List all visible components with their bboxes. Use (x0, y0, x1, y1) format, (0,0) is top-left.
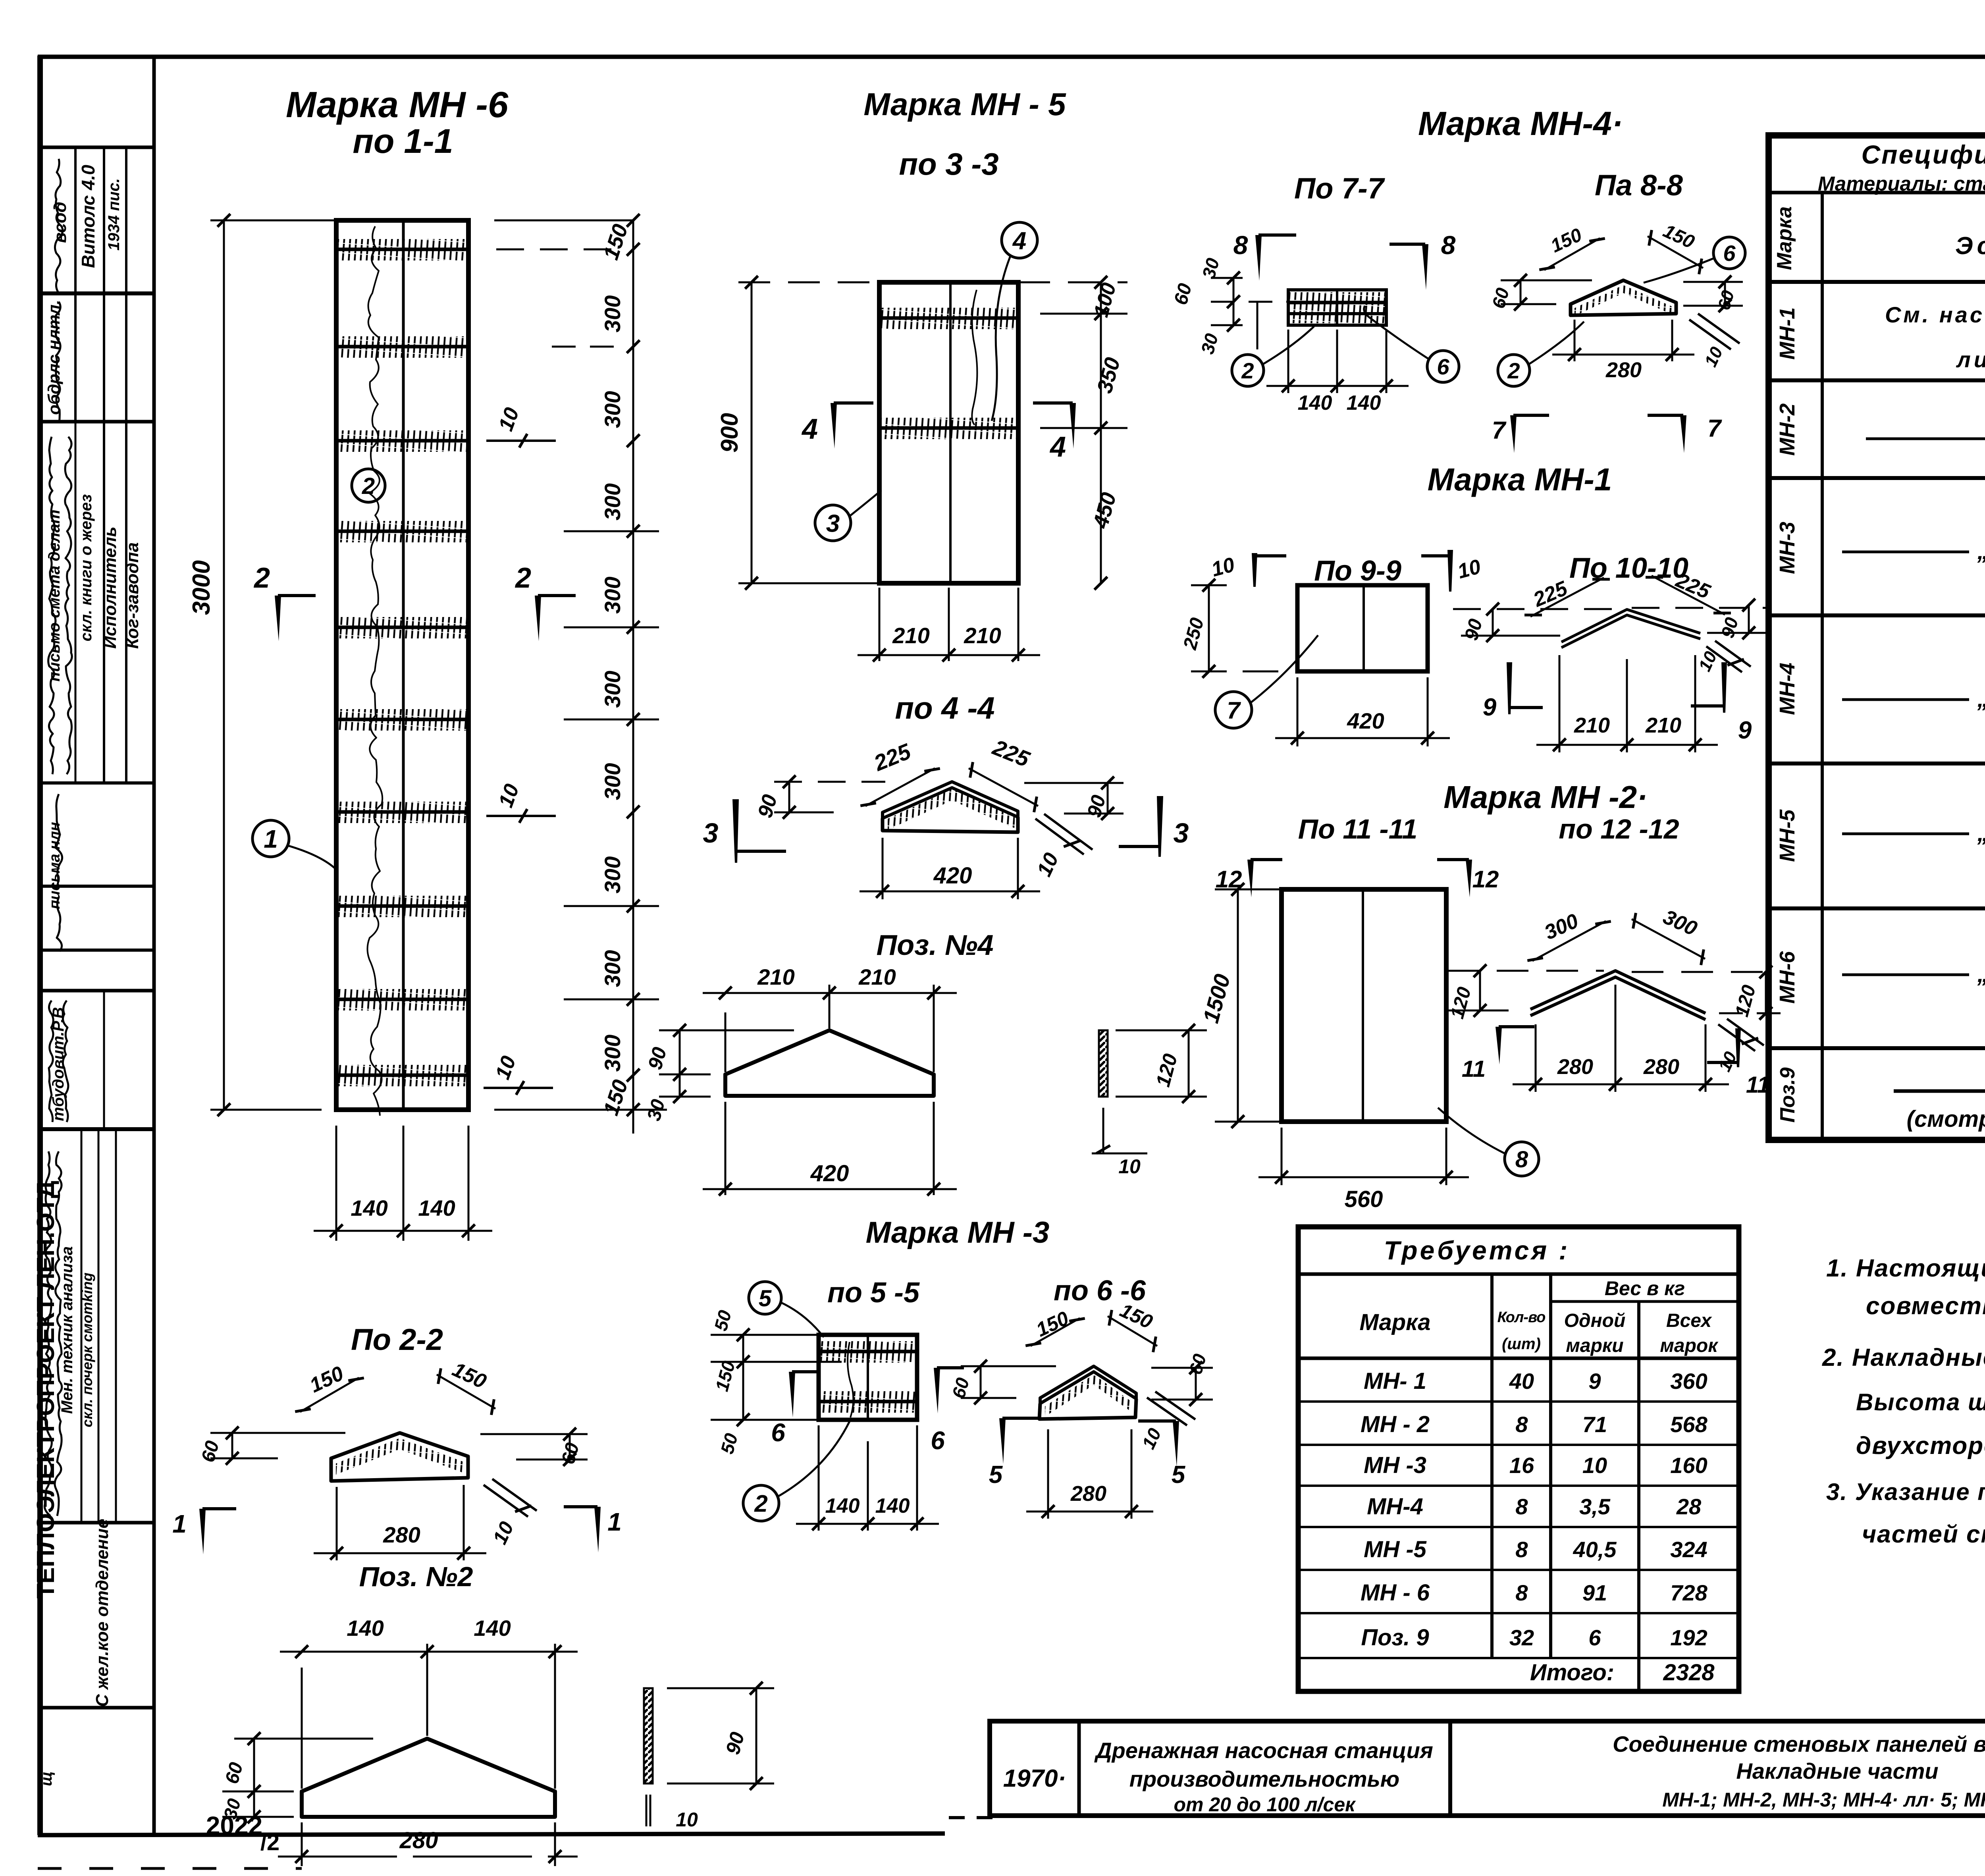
svg-text:3000: 3000 (188, 560, 215, 615)
MN-6 callout circle 2 (352, 469, 385, 502)
svg-text:1934 пис.: 1934 пис. (105, 178, 123, 251)
po 2-2 dim 150 left (300, 1378, 359, 1412)
svg-text:900: 900 (716, 413, 743, 453)
MN-6 section mark 2 left (275, 596, 281, 641)
svg-text:9: 9 (1588, 1369, 1601, 1394)
po 10-10 weld 10 (1706, 646, 1742, 672)
sheet top border (38, 55, 1985, 59)
po 11-11 callout circle 8 (1505, 1142, 1539, 1176)
po 5-5 left dims 50 150 50 (742, 1335, 744, 1420)
svg-text:160: 160 (1670, 1453, 1707, 1478)
svg-text:10: 10 (1118, 1155, 1141, 1178)
po 10-10 chevron plate (1561, 609, 1700, 642)
po 6-6 bent plate (1040, 1366, 1136, 1404)
sheet outer border left edge (37, 56, 43, 1835)
svg-text:140: 140 (347, 1616, 384, 1641)
svg-text:(шт): (шт) (1502, 1335, 1541, 1353)
svg-text:300: 300 (600, 856, 625, 893)
svg-text:6: 6 (1723, 241, 1736, 266)
po 11-11 bottom dim 560 (1281, 1128, 1283, 1185)
svg-text:32: 32 (1509, 1625, 1534, 1650)
svg-text:2: 2 (754, 1490, 767, 1517)
svg-text:300: 300 (600, 295, 625, 332)
svg-text:6: 6 (771, 1418, 785, 1447)
svg-text:Поз. 9: Поз. 9 (1361, 1625, 1429, 1650)
po 10-10 dim 225 left (1530, 578, 1604, 617)
svg-text:5: 5 (1172, 1461, 1186, 1488)
po 6-6 bottom dim 280 (1047, 1429, 1049, 1519)
po 12-12 dim 120 right (1765, 972, 1767, 1013)
svg-text:5: 5 (989, 1461, 1003, 1488)
svg-text:1: 1 (607, 1508, 622, 1536)
svg-text:6: 6 (1437, 354, 1449, 379)
svg-text:140: 140 (418, 1195, 455, 1220)
svg-text:МН - 6: МН - 6 (1361, 1580, 1430, 1606)
stamp column right edge (152, 57, 156, 1835)
po 6-6 dim 150 right (1108, 1316, 1157, 1346)
po 4-4 section mark 3 right (1157, 796, 1163, 857)
stamp column inner verticals upper (74, 147, 77, 422)
po 2-2 weld 10 (484, 1485, 528, 1517)
svg-text:МН-6: МН-6 (1775, 951, 1799, 1004)
MN-5 break wavy line (972, 290, 977, 425)
svg-text:280: 280 (1605, 358, 1642, 382)
svg-text:совместно с черт. листы: совместно с черт. листы ЛЛ 5;6 (1866, 1292, 1985, 1320)
po 6-6 section 5 left (999, 1418, 1006, 1464)
po 4-4 bottom dim 420 (882, 838, 884, 899)
svg-text:По 10-10: По 10-10 (1569, 552, 1688, 584)
MN-5 mid vertical (949, 282, 952, 583)
svg-text:По 11 -11: По 11 -11 (1298, 814, 1418, 844)
svg-text:8: 8 (1515, 1147, 1528, 1172)
po 8-8 dim 60 left (1520, 280, 1522, 304)
po 7-7 callout circle 6 (1427, 351, 1459, 382)
title block outer (990, 1721, 1985, 1816)
po 5-5 bottom dim 140 140 (818, 1425, 820, 1531)
svg-text:420: 420 (933, 863, 972, 889)
svg-text:Марка МН - 5: Марка МН - 5 (863, 87, 1066, 122)
po 8-8 bent plate (1571, 280, 1676, 315)
svg-text:300: 300 (600, 576, 625, 613)
po 5-5 break line (848, 1342, 853, 1417)
svg-text:МН-4: МН-4 (1775, 663, 1799, 715)
svg-text:280: 280 (1643, 1055, 1679, 1079)
svg-text:300: 300 (600, 1035, 625, 1072)
MN-6 break wavy line (368, 226, 383, 1116)
svg-text:Поз. №4: Поз. №4 (876, 929, 993, 961)
svg-text:1970·: 1970· (1003, 1765, 1066, 1792)
svg-text:1: 1 (264, 825, 278, 853)
svg-text:Спецификация металла на 1 ма: Спецификация металла на 1 марку (позицию… (1861, 140, 1985, 169)
po 2-2 dim 60 right (569, 1434, 571, 1460)
po 12-12 section 11 right (1735, 1028, 1741, 1067)
svg-text:8: 8 (1515, 1537, 1528, 1562)
svg-text:16: 16 (1509, 1453, 1534, 1478)
po 9-9 left dim 250 (1208, 584, 1210, 671)
spec table header grid (1769, 191, 1985, 195)
poz4 left dims 90 30 (679, 1030, 681, 1097)
poz4 triangle plate (725, 1030, 934, 1096)
po 9-9 bottom dim 420 (1297, 677, 1299, 746)
svg-text:См. настоящий: См. настоящий (1885, 302, 1985, 327)
svg-text:210: 210 (1574, 713, 1610, 737)
MN-5 callout circle 3 (815, 505, 851, 541)
sheet bottom border (38, 1834, 945, 1835)
po 4-4 section mark 3 left (732, 799, 739, 863)
svg-text:МН-4: МН-4 (1367, 1494, 1423, 1519)
svg-text:4: 4 (1049, 431, 1066, 463)
po 9-9 corner mark right 10 (1447, 550, 1453, 592)
svg-text:Марка МН -2·: Марка МН -2· (1443, 779, 1648, 815)
svg-text:Накладные части: Накладные части (1736, 1758, 1938, 1783)
svg-text:Марка: Марка (1359, 1309, 1430, 1335)
svg-text:140: 140 (351, 1195, 387, 1220)
svg-text:По 2-2: По 2-2 (351, 1323, 443, 1357)
po 7-7 section 8 top (1255, 235, 1262, 281)
svg-text:от 20 до 100 л/сек: от 20 до 100 л/сек (1174, 1793, 1356, 1816)
po 5-5 plate rect (819, 1335, 917, 1420)
po 10-10 dim 90 right (1748, 605, 1750, 633)
po 7-7 callout circle 2 (1232, 355, 1264, 386)
svg-text:140: 140 (1347, 391, 1381, 415)
svg-text:420: 420 (1347, 708, 1384, 733)
svg-text:140: 140 (474, 1616, 511, 1641)
svg-text:11: 11 (1462, 1056, 1486, 1082)
po 7-7 section 8 right (1422, 244, 1428, 290)
po 12-12 bottom dim 280 280 (1535, 1024, 1537, 1092)
svg-text:обдрлс нлтл.: обдрлс нлтл. (44, 300, 63, 415)
po 6-6 dim 60 right (1195, 1368, 1197, 1400)
svg-text:8: 8 (1515, 1580, 1528, 1605)
po 11-11 section 12 right (1466, 860, 1472, 897)
svg-text:9: 9 (1483, 694, 1497, 721)
svg-text:140: 140 (825, 1494, 860, 1517)
svg-text:Марка МН -3: Марка МН -3 (866, 1216, 1050, 1249)
svg-text:1: 1 (172, 1510, 187, 1538)
svg-text:3: 3 (1174, 817, 1189, 848)
po 5-5 section 6 right (934, 1368, 940, 1413)
MN-5 section mark 4 left (831, 403, 837, 449)
po 9-9 plate rect (1297, 585, 1428, 671)
po 5-5 section 6 left (789, 1372, 795, 1417)
svg-text:Поз.9: Поз.9 (1776, 1067, 1799, 1122)
svg-text:300: 300 (600, 763, 625, 800)
po 8-8 section 7 left (1510, 415, 1517, 453)
po 7-7 left dims 30 60 30 (1233, 278, 1235, 325)
svg-text:щ: щ (38, 1771, 55, 1786)
svg-text:скл. книги о жерез: скл. книги о жерез (77, 494, 95, 642)
svg-text:Соединение стеновых панелей: Соединение стеновых панелей в углах. (1613, 1731, 1985, 1756)
svg-text:4: 4 (801, 413, 818, 445)
poz2 edge dim 10 (646, 1795, 648, 1826)
trebuetsya table outer (1298, 1227, 1739, 1691)
svg-text:10: 10 (676, 1809, 698, 1831)
svg-text:300: 300 (600, 950, 625, 987)
poz4 edge view bar (1099, 1030, 1108, 1097)
po 12-12 dim 300 right (1632, 919, 1705, 959)
svg-text:Марка МН-1: Марка МН-1 (1428, 462, 1612, 497)
svg-text:9: 9 (1738, 717, 1752, 744)
svg-text:8: 8 (1233, 230, 1248, 260)
svg-text:6: 6 (931, 1426, 945, 1455)
svg-text:91: 91 (1582, 1580, 1607, 1605)
svg-text:3. Указание по антикоррозийн: 3. Указание по антикоррозийной защите на… (1826, 1479, 1985, 1505)
svg-text:по 4 -4: по 4 -4 (895, 690, 994, 725)
svg-text:140: 140 (1298, 391, 1332, 415)
poz2 bottom dim 280 (301, 1822, 303, 1866)
po 6-6 dim 150 left (1031, 1318, 1080, 1346)
svg-text:8: 8 (1515, 1494, 1528, 1519)
svg-text:по 3 -3: по 3 -3 (899, 147, 998, 181)
svg-text:МН -5: МН -5 (1364, 1537, 1427, 1562)
po 9-9 corner mark left 10 (1252, 553, 1257, 587)
MN-6 plate mid seam vertical (402, 220, 405, 1110)
po 10-10 dim 225 right (1652, 576, 1725, 615)
svg-text:2: 2 (515, 562, 531, 594)
svg-text:МН-5: МН-5 (1775, 809, 1799, 862)
po 10-10 section 9 right (1721, 662, 1727, 713)
po 8-8 dim 150 left (1544, 238, 1600, 270)
po 8-8 dim right 60 (1724, 282, 1726, 306)
svg-text:МН -3: МН -3 (1364, 1452, 1426, 1478)
svg-text:210: 210 (964, 623, 1001, 648)
svg-text:8: 8 (1441, 230, 1456, 260)
po 12-12 chevron plate (1530, 971, 1706, 1013)
svg-text:728: 728 (1670, 1580, 1707, 1605)
MN-5 weld seams (881, 316, 1017, 320)
spec table outer frame (1769, 135, 1985, 1140)
po 11-11 section 12 left (1247, 860, 1254, 897)
svg-text:7: 7 (1492, 417, 1507, 444)
paper edge dashes bottom left (38, 1867, 302, 1870)
po 4-4 dim 90 left (788, 782, 790, 812)
svg-text:Исполнитель: Исполнитель (100, 526, 120, 649)
MN-6 right dimension chain (632, 220, 634, 1134)
svg-text:2. Накладные части сварить: 2. Накладные части сварить электродами Э… (1822, 1344, 1985, 1371)
svg-text:МН-1: МН-1 (1775, 307, 1799, 360)
svg-text:192: 192 (1670, 1625, 1707, 1650)
MN-6 weld seams (338, 248, 466, 251)
svg-text:МН-2: МН-2 (1775, 403, 1799, 456)
po 4-4 dim 225 left (865, 768, 935, 806)
svg-text:Итого:: Итого: (1530, 1660, 1614, 1685)
MN-5 callout circle 4 (1002, 222, 1037, 258)
svg-text:частей см. пояснительную зап: частей см. пояснительную записку. (1862, 1521, 1985, 1548)
svg-text:Эскиз: Эскиз (1955, 232, 1985, 260)
po 12-12 weld 10 (1718, 1024, 1755, 1051)
po 9-9 callout circle 7 (1215, 692, 1252, 728)
svg-text:300: 300 (600, 391, 625, 428)
po 4-4 dim 90 right (1107, 783, 1109, 814)
po 6-6 dim 60 left (980, 1366, 982, 1398)
po 11-11 left dim 1500 (1237, 889, 1239, 1122)
svg-text:марки: марки (1566, 1335, 1623, 1356)
svg-text:„: „ (1977, 820, 1985, 846)
svg-text:324: 324 (1670, 1537, 1707, 1562)
svg-text:МН-3: МН-3 (1775, 522, 1799, 574)
svg-text:Одной: Одной (1564, 1310, 1626, 1331)
po 2-2 bent plate (331, 1433, 468, 1481)
svg-text:5: 5 (759, 1286, 772, 1311)
poz4 edge dim 120 (1188, 1030, 1190, 1097)
svg-text:„: „ (1977, 686, 1985, 712)
MN-5 bottom dimension 210 210 (879, 588, 881, 661)
MN-5 left dimension 900 (751, 282, 753, 583)
po 12-12 dim 120 left (1479, 971, 1481, 1010)
po 10-10 dim 90 left (1492, 609, 1494, 636)
svg-text:71: 71 (1582, 1412, 1607, 1437)
spec table major row lines (1769, 378, 1985, 382)
po 8-8 section 7 right (1680, 415, 1686, 453)
svg-text:210: 210 (1645, 713, 1681, 737)
svg-text:12: 12 (1472, 866, 1499, 893)
svg-text:568: 568 (1670, 1412, 1707, 1437)
po 2-2 dim 150 right (437, 1375, 495, 1409)
poz4 bottom dim 420 (725, 1102, 727, 1195)
po 12-12 dim 300 left (1532, 921, 1606, 961)
MN-6 bottom dimension 140 140 (335, 1126, 337, 1241)
svg-text:210: 210 (757, 964, 794, 989)
svg-text:210: 210 (892, 623, 929, 648)
svg-text:МН-1; МН-2, МН-3; МН-4· лл· 5: МН-1; МН-2, МН-3; МН-4· лл· 5; МН-6 (1662, 1789, 1985, 1811)
svg-text:280: 280 (399, 1828, 438, 1853)
svg-text:МН- 1: МН- 1 (1364, 1368, 1426, 1394)
po 11-11 plate rect (1282, 889, 1446, 1122)
MN-5 right dimension chain (1100, 282, 1102, 583)
po 6-6 section 5 right (1173, 1421, 1179, 1467)
svg-text:4: 4 (1012, 227, 1026, 255)
svg-text:Поз. №2: Поз. №2 (359, 1561, 473, 1592)
po 2-2 bottom dim 280 (336, 1487, 338, 1560)
stamp scribble lines (55, 159, 62, 294)
svg-text:Высота шва равна hш=10мм.: Высота шва равна hш=10мм. швы непрерывны… (1856, 1389, 1985, 1415)
svg-text:140: 140 (875, 1494, 910, 1517)
svg-text:10: 10 (1582, 1453, 1607, 1478)
poz2 triangle plate (302, 1739, 555, 1817)
svg-text:Всех: Всех (1666, 1310, 1712, 1331)
svg-text:Вес в кг: Вес в кг (1605, 1277, 1685, 1300)
svg-text:300: 300 (600, 483, 625, 520)
po 4-4 weld size 10 (1035, 819, 1084, 854)
svg-text:скл. почерк смотking: скл. почерк смотking (79, 1273, 95, 1427)
poz2 top dim 140 140 (301, 1668, 303, 1789)
po 8-8 dim 150 right (1648, 236, 1703, 268)
po 4-4 bent plate (883, 782, 1018, 818)
po 12-12 section 11 left (1495, 1027, 1502, 1064)
svg-text:2: 2 (1241, 358, 1254, 383)
svg-text:производительностью: производительностью (1129, 1766, 1399, 1791)
po 10-10 section 9 left (1507, 662, 1512, 714)
svg-text:Ког-заводпа: Ког-заводпа (123, 542, 142, 649)
svg-text:Кол-во: Кол-во (1497, 1309, 1546, 1326)
svg-text:7: 7 (1707, 415, 1722, 442)
svg-text:6: 6 (1588, 1625, 1601, 1650)
svg-text:(смотр. лист №6 ): (смотр. лист №6 ) (1907, 1106, 1985, 1132)
svg-text:по 12 -12: по 12 -12 (1559, 814, 1679, 844)
MN-6 callout circle 1 (252, 820, 289, 857)
svg-text:По 7-7: По 7-7 (1294, 172, 1386, 205)
MN-5 section mark 4 right (1070, 403, 1076, 449)
svg-text:ТЕПЛОЭЛЕКТРОПРОЕКТ ЛЕН.ОТД: ТЕПЛОЭЛЕКТРОПРОЕКТ ЛЕН.ОТД (32, 1181, 60, 1599)
MN-5 plate view rectangle (879, 282, 1018, 583)
svg-text:300: 300 (600, 671, 625, 708)
svg-text:по 1-1: по 1-1 (353, 122, 453, 160)
svg-text:2: 2 (253, 562, 270, 594)
svg-text:2328: 2328 (1663, 1660, 1715, 1685)
MN-6 plate view rectangle (336, 220, 468, 1110)
svg-text:лист: лист (1956, 347, 1985, 372)
svg-text:по 5 -5: по 5 -5 (827, 1277, 920, 1309)
stamp column horizontal dividers (42, 146, 154, 149)
poz2 edge view bar (644, 1688, 653, 1783)
svg-text:марок: марок (1660, 1335, 1719, 1356)
stamp column inner verticals mid (103, 991, 105, 1129)
svg-text:По 9-9: По 9-9 (1314, 555, 1401, 587)
svg-text:/2: /2 (260, 1830, 279, 1855)
svg-text:210: 210 (858, 964, 896, 989)
svg-text:40,5: 40,5 (1573, 1537, 1617, 1562)
svg-text:„: „ (1977, 538, 1985, 564)
svg-text:2022: 2022 (206, 1811, 262, 1840)
svg-text:3: 3 (826, 510, 840, 537)
po 2-2 section 1 right (594, 1507, 601, 1552)
svg-text:560: 560 (1345, 1186, 1383, 1212)
svg-text:2: 2 (362, 473, 375, 499)
po 10-10 bottom dim 210 210 (1559, 655, 1561, 752)
po 4-4 dim 225 right (969, 768, 1038, 806)
svg-text:360: 360 (1670, 1369, 1707, 1394)
po 7-7 plate stack (1288, 290, 1386, 314)
MN-6 section mark 2 right (535, 596, 541, 641)
po 8-8 callout circle 2 (1498, 355, 1530, 386)
svg-text:3,5: 3,5 (1579, 1494, 1611, 1519)
po 7-7 bottom dim 140 140 (1287, 330, 1289, 393)
svg-text:280: 280 (383, 1522, 420, 1547)
svg-text:280: 280 (1070, 1482, 1106, 1506)
svg-text:28: 28 (1676, 1494, 1702, 1519)
svg-text:Па 8-8: Па 8-8 (1595, 169, 1683, 202)
po 2-2 dim 60 left (231, 1433, 233, 1458)
po 6-6 weld 10 (1147, 1398, 1187, 1425)
po 5-5 callout circle 5 (749, 1282, 781, 1314)
po 8-8 weld 10 (1689, 320, 1731, 349)
po 8-8 callout circle 6 (1713, 237, 1745, 269)
svg-text:Марка: Марка (1773, 206, 1796, 270)
svg-text:Дренажная насосная станция: Дренажная насосная станция (1094, 1738, 1433, 1763)
svg-text:420: 420 (810, 1161, 849, 1186)
poz2 left dims 60 30 (253, 1739, 255, 1817)
svg-text:3: 3 (703, 817, 719, 848)
MN-6 seam extension lines (496, 249, 627, 251)
svg-text:МН - 2: МН - 2 (1361, 1411, 1430, 1437)
poz4 edge dim 10 (1102, 1108, 1104, 1153)
po 2-2 section 1 left (199, 1509, 206, 1554)
stamp column inner verticals lower (81, 1129, 83, 1523)
svg-text:С жел.кое отделение: С жел.кое отделение (93, 1519, 112, 1707)
svg-text:2: 2 (1507, 358, 1520, 383)
svg-text:Марка МН-4·: Марка МН-4· (1418, 105, 1623, 142)
po 8-8 bottom dim 280 (1574, 320, 1576, 361)
poz2 edge dim 90 (755, 1688, 757, 1783)
svg-text:двухсторонние.: двухсторонние. (1856, 1432, 1985, 1460)
poz4 top dim 210 210 (725, 1012, 727, 1072)
svg-text:280: 280 (1557, 1055, 1593, 1079)
svg-text:8: 8 (1515, 1412, 1528, 1437)
svg-text:40: 40 (1509, 1369, 1534, 1394)
svg-text:Марка МН -6: Марка МН -6 (286, 85, 509, 125)
po 5-5 callout circle 2 (743, 1485, 779, 1521)
svg-text:Требуется :: Требуется : (1384, 1236, 1570, 1265)
